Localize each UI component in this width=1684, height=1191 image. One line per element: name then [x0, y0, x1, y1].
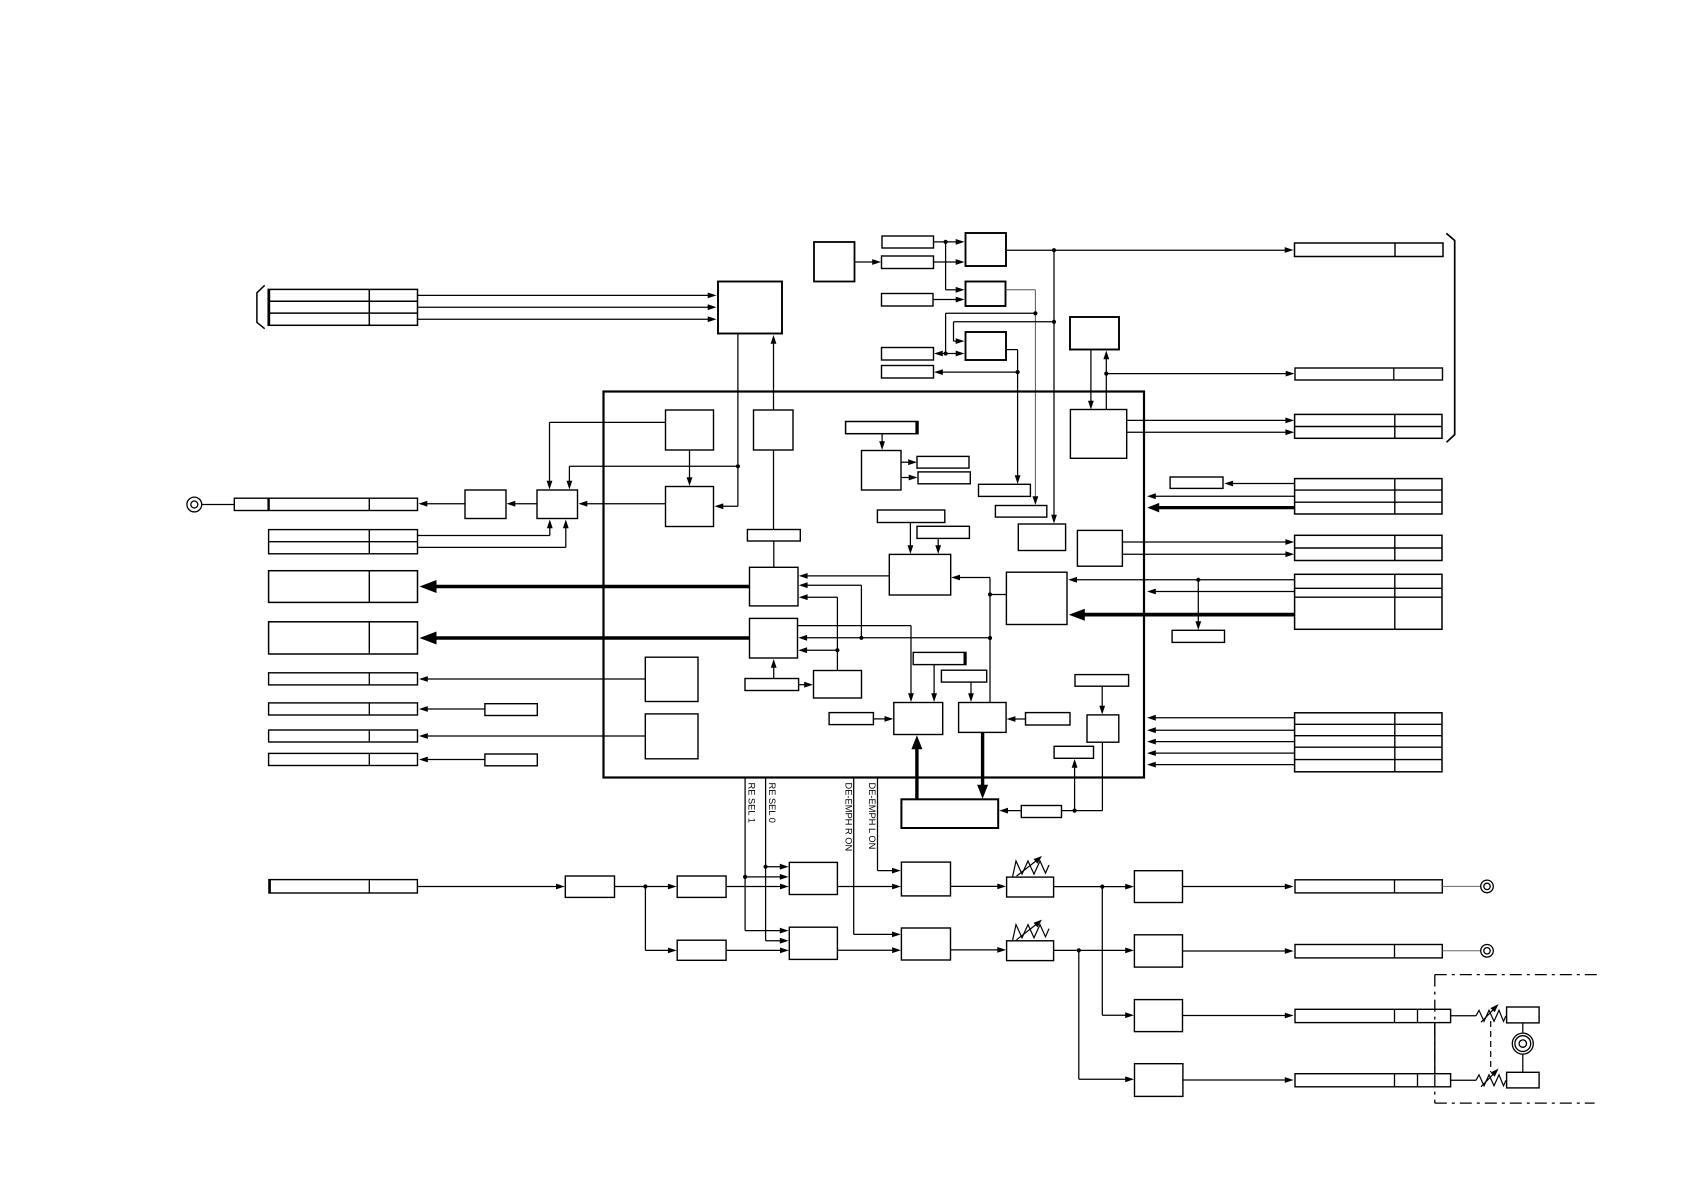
svg-text:DE-EMPH L ON: DE-EMPH L ON	[867, 783, 877, 850]
svg-text:RE SEL 0: RE SEL 0	[767, 783, 777, 823]
svg-text:RE SEL 1: RE SEL 1	[747, 783, 757, 823]
svg-text:DE-EMPH R ON: DE-EMPH R ON	[843, 783, 853, 852]
